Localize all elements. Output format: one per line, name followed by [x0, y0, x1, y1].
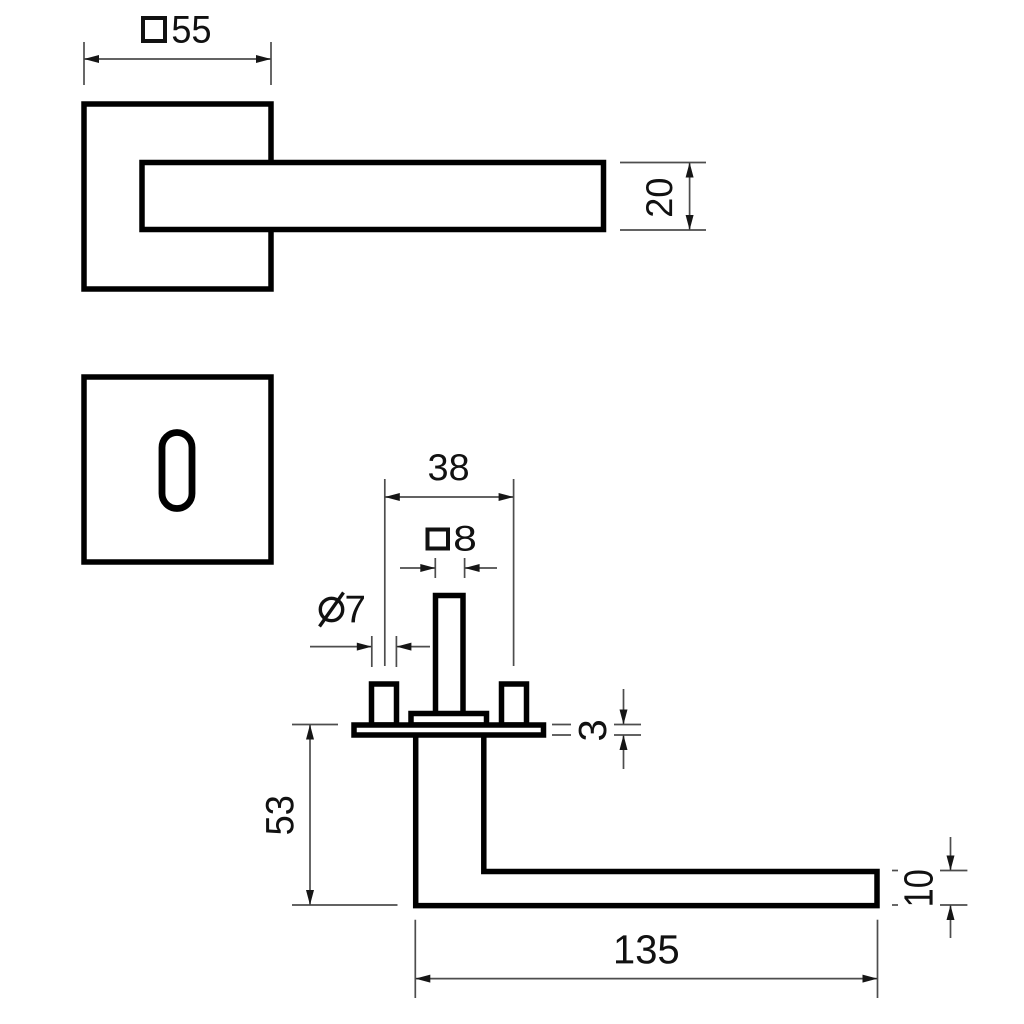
dimension 3: text 3 (rotated) — [579, 721, 607, 740]
dimension 55: text 55 — [173, 16, 210, 43]
dimension square-8: right line — [465, 567, 497, 569]
dimension 3: extension tick upper-left — [552, 724, 571, 726]
dimension 10: upper dimension line — [950, 837, 952, 871]
dimension 10: extension line top-right — [940, 870, 967, 872]
dimension square-8: tick left — [434, 558, 436, 578]
dimension 55: left arrowhead — [84, 55, 99, 63]
dimension 3: upper arrowhead (points down) — [620, 710, 628, 725]
left fixing screw — [372, 684, 397, 725]
dimension square-8: tick right — [464, 558, 466, 578]
right fixing screw — [502, 684, 527, 725]
dimension 10: text 10 (rotated) — [904, 871, 933, 905]
dimension 10: lower dimension line — [950, 905, 952, 938]
dimension 3: extension tick lower-left — [552, 734, 571, 736]
dimension square-8: right arrowhead (points left) — [465, 564, 480, 572]
handle side view: L-shaped lever — [416, 737, 877, 906]
dimension 20: extension line bottom — [620, 229, 706, 231]
dimension 38: extension line left — [384, 479, 386, 666]
dimension 53: top arrowhead — [306, 725, 314, 740]
dimension 10: extension dash bottom-left — [892, 904, 898, 906]
dimension dia-7: right line — [396, 646, 430, 648]
dimension 53: bottom arrowhead — [306, 890, 314, 905]
dimension 20: extension line top — [620, 162, 706, 164]
dimension 135: right arrowhead — [863, 975, 878, 983]
dimension 20: text 20 (rotated) — [646, 179, 673, 216]
dimension 55: dimension line — [84, 58, 271, 60]
dimension 55: extension line right — [270, 42, 272, 85]
dimension dia-7: right arrowhead (points left) — [396, 643, 411, 651]
rosette plate (side view) — [354, 725, 544, 735]
dimension 55: square symbol glyph — [143, 18, 165, 41]
dimension square-8: text 8 — [455, 526, 475, 551]
dimension 135: extension line left — [414, 920, 416, 998]
dimension 135: dimension line — [415, 978, 877, 980]
dimension 53: dimension line — [309, 725, 311, 906]
dimension 38: extension line right — [513, 479, 515, 666]
dimension 53: text 53 (rotated) — [266, 797, 294, 834]
dimension 3: lower arrowhead (points up) — [620, 735, 628, 750]
dimension 3: extension tick lower-right — [614, 734, 641, 736]
spindle collar — [411, 714, 487, 726]
dimension 53: extension line bottom — [292, 904, 398, 906]
dimension dia-7: text Ø7 — [320, 598, 342, 620]
dimension 38: right arrowhead — [499, 493, 514, 501]
dimension 53: extension line top — [292, 724, 338, 726]
key rosette square (middle-left) — [84, 377, 271, 562]
dimension square-8: left line — [400, 567, 435, 569]
dimension 38: left arrowhead — [385, 493, 400, 501]
dimension 10: lower arrowhead (points up) — [947, 905, 955, 920]
handle lever bar (plan view) — [142, 163, 604, 230]
keyhole slot — [162, 433, 192, 509]
dimension 10: extension dash top-left — [892, 870, 898, 872]
spindle (square bar, side view) — [436, 596, 464, 718]
dimension 10: extension line bottom-right — [940, 904, 967, 906]
dimension dia-7: left arrowhead (points right) — [357, 643, 372, 651]
dimension 135: text 135 — [616, 935, 678, 964]
dimension 55: extension line left — [83, 42, 85, 85]
dimension square-8: left arrowhead (points right) — [420, 564, 435, 572]
dimension dia-7: tick right — [395, 636, 397, 667]
dimension 3: upper dimension line — [623, 689, 625, 725]
dimension square-8: square symbol glyph — [428, 530, 449, 549]
dimension 20: bottom arrowhead — [686, 215, 694, 230]
dimension 135: left arrowhead — [415, 975, 430, 983]
dimension 135: extension line right — [877, 920, 879, 998]
dimension 38: text 38 — [429, 454, 468, 481]
dimension dia-7: left line — [310, 646, 372, 648]
dimension 20: top arrowhead — [686, 163, 694, 178]
dimension 38: dimension line — [385, 496, 514, 498]
dimension 3: lower dimension line — [623, 735, 625, 769]
dimension 55: right arrowhead — [256, 55, 271, 63]
dimension 20: dimension line — [689, 163, 691, 231]
dimension 10: upper arrowhead (points down) — [947, 856, 955, 871]
dimension dia-7: tick left — [371, 636, 373, 667]
rosette square (plan view, top-left) — [84, 104, 271, 289]
dimension 3: extension tick upper-right — [614, 724, 641, 726]
